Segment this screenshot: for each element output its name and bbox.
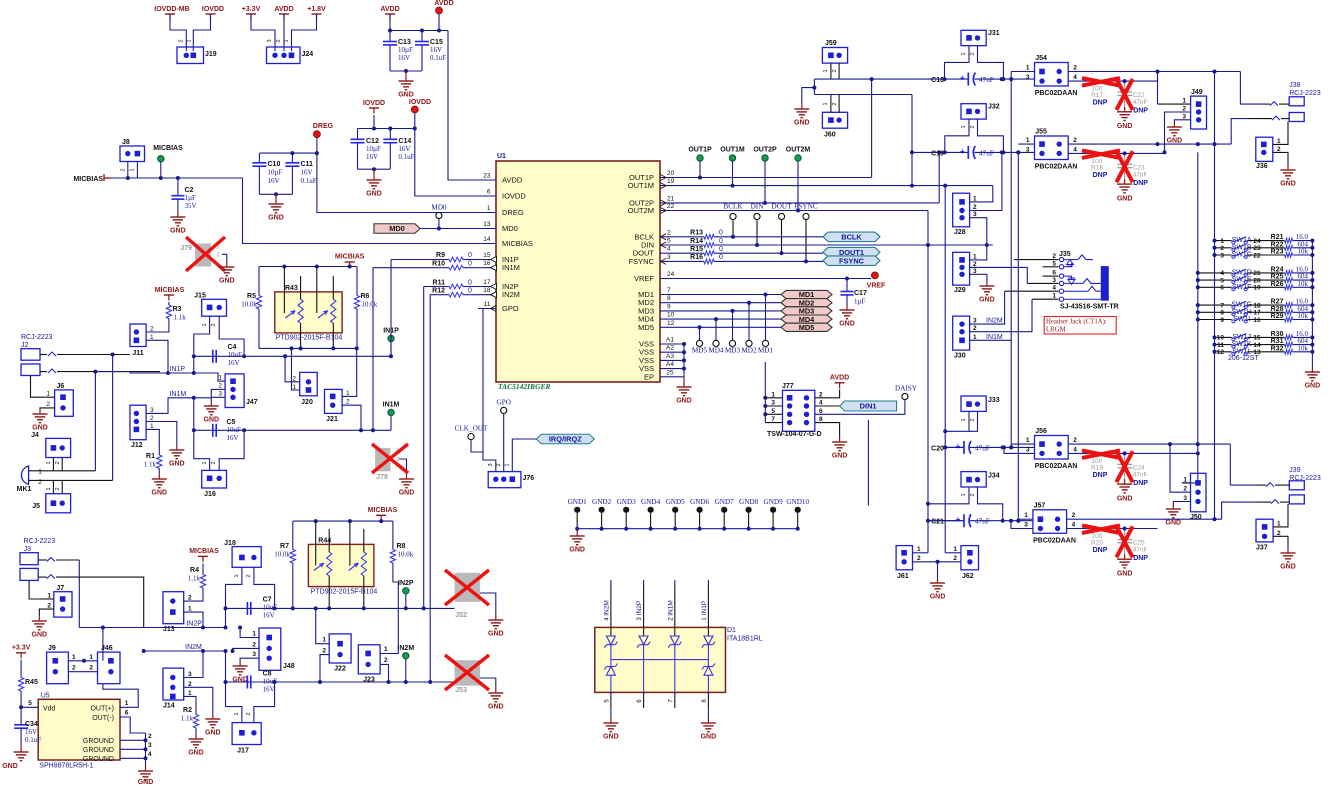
svg-text:DIN: DIN — [751, 203, 765, 211]
wire — [292, 14, 317, 51]
junction at 797.7,528.7 — [796, 527, 800, 531]
junction at 388.5,682 — [387, 680, 391, 684]
power testpoint VREF — [872, 272, 879, 279]
capacitor C15 — [421, 31, 423, 42]
svg-text:MD4: MD4 — [708, 347, 724, 355]
svg-text:J20: J20 — [301, 399, 313, 406]
svg-text:1µF: 1µF — [854, 298, 866, 306]
wire — [838, 95, 840, 113]
testpoint — [713, 340, 719, 346]
testpoint OUT1P — [697, 155, 703, 161]
svg-text:16V: 16V — [263, 686, 275, 694]
connector J20 — [300, 372, 318, 395]
testpoint — [762, 340, 768, 346]
connector J5 — [46, 494, 71, 513]
junction at 390.3,128.5 — [388, 127, 392, 131]
connector J46 — [98, 652, 121, 684]
capacitor C25 (DNP) — [1124, 529, 1126, 540]
junction at 1164.5,152.4 — [1163, 150, 1167, 154]
junction at 765.3,397.8 — [763, 396, 767, 400]
wire — [674, 513, 676, 529]
svg-text:Vdd: Vdd — [43, 706, 56, 713]
connector J17 — [232, 723, 261, 745]
wire MD5 row — [678, 326, 781, 328]
svg-text:R29: R29 — [1271, 313, 1284, 320]
svg-text:19: 19 — [1253, 285, 1261, 292]
svg-text:1: 1 — [234, 574, 240, 577]
testpoint GND8 — [746, 507, 752, 513]
svg-text:J59: J59 — [825, 40, 837, 47]
junction at 95.4,371.6 — [93, 370, 97, 374]
svg-text:10µF: 10µF — [398, 46, 413, 54]
wire — [830, 95, 832, 113]
ground — [610, 718, 612, 723]
ground — [1311, 367, 1313, 372]
junction at 1124.6,453.4 — [1123, 451, 1127, 455]
connector J59 — [822, 48, 847, 64]
red X over J53 — [445, 655, 489, 690]
red X over C24 — [1116, 451, 1132, 482]
connector J52 (DNP) — [455, 573, 481, 602]
svg-text:GND: GND — [152, 490, 168, 497]
capacitor C14 — [389, 129, 391, 140]
junction at 781.5,253.2 — [780, 251, 784, 255]
svg-text:GND5: GND5 — [666, 498, 686, 506]
wire — [463, 294, 478, 296]
wire — [52, 458, 54, 471]
svg-text:0: 0 — [719, 254, 723, 261]
wire J2 sleeve to J6 — [31, 376, 41, 398]
svg-text:1: 1 — [953, 546, 957, 553]
wire J79 to ground — [222, 254, 227, 262]
svg-text:BCLK: BCLK — [723, 203, 743, 211]
svg-text:3: 3 — [1024, 522, 1028, 529]
testpoint GND9 — [770, 507, 776, 513]
wire — [202, 563, 204, 574]
svg-text:47nF: 47nF — [1133, 99, 1148, 106]
wire pot4 wiper — [349, 521, 351, 565]
wire testpoint R14 — [756, 220, 758, 245]
junction at 1312.4,319.5 — [1310, 318, 1314, 322]
J35 contact pin5 — [1064, 263, 1072, 267]
wire IRQ to J76 — [512, 439, 536, 472]
ground — [576, 531, 578, 536]
svg-text:16V: 16V — [25, 728, 37, 736]
svg-text:GND8: GND8 — [739, 498, 759, 506]
svg-text:35V: 35V — [185, 202, 197, 210]
svg-text:1: 1 — [234, 712, 240, 715]
wire J16 pin1 — [194, 430, 210, 470]
wire J57 to J39 ring — [1222, 502, 1256, 519]
ground — [1172, 504, 1174, 509]
svg-text:C12: C12 — [366, 138, 379, 145]
wire J56 pin4 row — [1068, 452, 1198, 454]
svg-text:C11: C11 — [301, 161, 314, 168]
wire J18 pin2 — [254, 567, 275, 608]
svg-text:0: 0 — [468, 280, 472, 287]
svg-text:2: 2 — [832, 69, 838, 72]
svg-text:A3: A3 — [666, 353, 674, 360]
wire CLK_OUT to J76 — [471, 440, 483, 452]
svg-text:47nF: 47nF — [1133, 171, 1148, 178]
svg-text:1: 1 — [1026, 137, 1030, 144]
wire J54 pin1 — [1011, 71, 1034, 73]
wire J36 pin1 to J38 — [1273, 122, 1288, 145]
svg-text:DIN1: DIN1 — [860, 402, 877, 411]
svg-text:4: 4 — [1220, 270, 1224, 277]
junction at 650.6,528.7 — [649, 527, 653, 531]
capacitor C22 (DNP) — [1124, 81, 1126, 92]
svg-text:OUT(-): OUT(-) — [92, 715, 114, 722]
svg-text:J52: J52 — [455, 612, 467, 619]
svg-text:2: 2 — [1182, 106, 1186, 113]
svg-text:J12: J12 — [131, 442, 143, 449]
junction at 944.8,152.4 — [943, 150, 947, 154]
wire — [136, 162, 138, 179]
ground — [177, 212, 179, 217]
power flag MICBIAS — [376, 514, 386, 516]
wire left rail B — [1214, 72, 1216, 520]
svg-text:DNP: DNP — [1093, 172, 1108, 179]
wire — [945, 446, 962, 448]
svg-text:18: 18 — [1253, 302, 1261, 309]
wire — [103, 684, 138, 708]
wire — [650, 513, 652, 529]
wire — [160, 162, 162, 178]
wire — [463, 286, 478, 288]
junction at 232.5,651 — [231, 649, 235, 653]
wire J53 to ground — [480, 678, 496, 688]
ground — [20, 747, 22, 752]
testpoint GND1 — [574, 507, 580, 513]
wire OUT2P up to C19 — [938, 152, 940, 203]
junction at 225.5,608.4 — [224, 606, 228, 610]
svg-text:10k: 10k — [1298, 312, 1309, 320]
junction at 1002.7,520.7 — [1001, 519, 1005, 523]
svg-text:GND: GND — [1117, 123, 1133, 130]
svg-text:24: 24 — [1253, 238, 1261, 245]
junction at 1018.3,152.4 — [1016, 150, 1020, 154]
junction at 1312.4,344.6 — [1310, 343, 1314, 347]
wire J56 row to J39 — [1229, 444, 1231, 485]
wire J54 to J38 tip — [1240, 72, 1265, 105]
wire OUT1P up to C18 — [871, 79, 873, 177]
svg-text:1: 1 — [38, 469, 42, 476]
power testpoint IOVDD — [411, 106, 418, 113]
wire IN1M bus right — [244, 429, 391, 431]
svg-text:GND: GND — [169, 461, 185, 468]
svg-text:MICBIAS: MICBIAS — [73, 176, 103, 183]
power flag AVDD — [835, 382, 845, 384]
wire IN2P row — [79, 627, 225, 629]
connector J23 — [358, 645, 380, 674]
svg-text:1: 1 — [46, 461, 52, 464]
svg-text:10uF: 10uF — [227, 426, 242, 434]
U1 VSS and EP pins — [660, 343, 684, 345]
wire — [392, 521, 394, 549]
svg-text:PBC02DAAN: PBC02DAAN — [1035, 164, 1078, 171]
svg-text:C34: C34 — [25, 721, 38, 728]
svg-text:2: 2 — [1220, 245, 1224, 252]
junction at 765.5,294.5 — [764, 293, 768, 297]
junction at 732.5,185.6 — [731, 184, 735, 188]
wire J56 to J39 tip — [1230, 484, 1256, 486]
svg-text:OUT1P: OUT1P — [688, 147, 712, 154]
wire R3 to J11 — [146, 319, 169, 333]
svg-text:2: 2 — [384, 657, 388, 664]
svg-text:2: 2 — [55, 461, 61, 464]
wire — [610, 708, 612, 718]
wire — [678, 260, 704, 262]
svg-text:GND9: GND9 — [764, 498, 784, 506]
svg-text:J11: J11 — [132, 350, 143, 357]
wire J16 pin2 — [219, 430, 244, 470]
wire — [61, 458, 63, 471]
testpoint GND5 — [672, 507, 678, 513]
svg-text:GND: GND — [1280, 181, 1296, 188]
connector J18 — [232, 547, 261, 568]
junction at 405.8,682 — [404, 680, 408, 684]
wire — [678, 244, 704, 246]
wire J22 pin1 — [316, 608, 330, 643]
junction at 193.8,430.3 — [192, 428, 196, 432]
wire testpoint R15 — [781, 220, 783, 254]
svg-text:4: 4 — [1072, 522, 1076, 529]
wire to J50 pin1 — [1182, 482, 1198, 484]
wire J9-J46 row1 — [68, 660, 97, 662]
connector J28 — [953, 193, 970, 227]
J35 tip contact — [1064, 259, 1078, 261]
capacitor C10 — [258, 153, 260, 162]
svg-text:C7: C7 — [263, 597, 272, 604]
junction at 1312.4,247.8 — [1310, 246, 1314, 250]
svg-text:AVDD: AVDD — [830, 375, 849, 382]
wire J54 pin2 row — [1068, 71, 1240, 73]
junction at 145.5,740.3 — [144, 738, 148, 742]
svg-text:J5: J5 — [32, 503, 40, 510]
red X over J52 — [445, 570, 489, 605]
svg-text:R13: R13 — [690, 230, 703, 237]
svg-text:ITA18B1RL: ITA18B1RL — [727, 636, 763, 643]
wire — [390, 70, 422, 72]
U1 left pins — [478, 179, 496, 181]
svg-text:AVDD: AVDD — [380, 6, 399, 13]
net flag MD4 — [781, 315, 832, 323]
svg-text:3: 3 — [771, 400, 775, 407]
wire J33 pin1 — [945, 411, 969, 431]
svg-text:J29: J29 — [954, 287, 966, 294]
wire J13 pin1 to IN2P — [184, 612, 203, 627]
ground — [495, 615, 497, 620]
power flag MICBIAS — [345, 261, 355, 263]
wire J17 pin2 — [254, 682, 275, 723]
wire — [748, 513, 750, 529]
svg-text:J53: J53 — [455, 687, 467, 694]
svg-text:2: 2 — [211, 323, 217, 326]
svg-text:7: 7 — [667, 287, 671, 294]
svg-text:DNP: DNP — [1133, 108, 1148, 115]
svg-text:GND7: GND7 — [715, 498, 735, 506]
J3 tip contact — [38, 559, 47, 561]
svg-text:J4: J4 — [31, 432, 39, 439]
svg-text:J24: J24 — [302, 51, 314, 58]
svg-text:IN1P: IN1P — [701, 601, 708, 615]
junction at 203,627.5 — [201, 626, 205, 630]
svg-text:GND: GND — [399, 490, 415, 497]
ground — [1287, 165, 1289, 170]
svg-text:IN2M: IN2M — [185, 644, 202, 651]
wire left rail A — [1197, 152, 1199, 483]
wire J29 pin3 to ground — [970, 274, 987, 281]
junction at 1214.5,240.6 — [1213, 239, 1217, 243]
svg-text:R18: R18 — [1091, 164, 1103, 171]
junction at 1197.8,319.5 — [1196, 318, 1200, 322]
svg-text:R32: R32 — [1271, 345, 1284, 352]
junction at 1003.4,79.1 — [1001, 77, 1005, 81]
net flag FSYNC — [823, 256, 880, 266]
junction at 1312.4,287.3 — [1310, 285, 1314, 289]
junction at 814.4,87.6 — [812, 86, 816, 90]
svg-text:1: 1 — [961, 493, 967, 496]
wire J29 pin1 to DIN — [970, 245, 987, 260]
svg-text:J23: J23 — [363, 677, 375, 684]
wire J2 ring IN1P — [57, 371, 160, 373]
svg-text:R21: R21 — [1271, 234, 1284, 241]
svg-text:15: 15 — [1253, 335, 1261, 342]
svg-text:3: 3 — [148, 742, 152, 749]
wire — [438, 219, 440, 229]
junction at 1011.2,447.4 — [1009, 445, 1013, 449]
junction at 274.6,608.4 — [273, 606, 277, 610]
svg-text:J30: J30 — [954, 353, 966, 360]
svg-text:14: 14 — [483, 236, 491, 243]
junction at 765.3,406 — [763, 404, 767, 408]
junction at 333.3,348.4 — [331, 346, 335, 350]
D1 top diodes — [606, 636, 615, 645]
svg-text:5: 5 — [771, 408, 775, 415]
svg-text:R20: R20 — [1091, 540, 1103, 547]
red X over J79 — [186, 237, 225, 271]
junction at 945.2,431.3 — [943, 429, 947, 433]
svg-text:OUT2P: OUT2P — [753, 147, 777, 154]
wire J18 pin1 — [226, 567, 242, 608]
junction at 1312.4,255 — [1310, 253, 1314, 257]
svg-text:+: + — [956, 515, 961, 524]
junction at 406,71 — [404, 69, 408, 73]
svg-text:PTD902-2015F-B104: PTD902-2015F-B104 — [311, 589, 378, 596]
testpoint CLK_OUT — [468, 434, 474, 440]
wire — [625, 513, 627, 529]
testpoint GND3 — [623, 507, 629, 513]
power flag +3.3V — [16, 652, 26, 654]
junction at 112.6,354.5 — [111, 353, 115, 357]
svg-text:2: 2 — [1073, 437, 1077, 444]
svg-text:0.1uF: 0.1uF — [430, 54, 446, 62]
wire — [52, 480, 54, 493]
D1 bottom pins — [610, 692, 612, 708]
svg-text:3: 3 — [218, 391, 222, 398]
svg-text:10k: 10k — [1298, 280, 1309, 288]
wire C4 bus — [194, 355, 244, 357]
wire — [390, 342, 392, 356]
svg-text:24: 24 — [667, 271, 675, 278]
junction at 944.5,79.1 — [943, 77, 947, 81]
testpoint GPO — [501, 407, 507, 413]
junction at 374,169.2 — [372, 167, 376, 171]
svg-text:MICBIAS: MICBIAS — [368, 507, 398, 514]
svg-text:GND: GND — [398, 92, 414, 99]
svg-text:IN2M: IN2M — [502, 290, 520, 299]
wire pot2 top — [332, 276, 334, 299]
svg-text:R10: R10 — [432, 261, 445, 268]
svg-text:MD0: MD0 — [431, 204, 447, 212]
svg-text:GROUND: GROUND — [83, 747, 114, 754]
junction at 928,520.7 — [926, 519, 930, 523]
wire J14 pin2 to ground — [184, 687, 213, 714]
svg-text:IOVDD: IOVDD — [409, 99, 431, 106]
svg-text:C21: C21 — [931, 519, 944, 526]
svg-text:2: 2 — [55, 487, 61, 490]
wire IN1P bus right — [244, 355, 391, 357]
ground — [226, 262, 228, 267]
svg-text:GND: GND — [1117, 495, 1133, 502]
wire IN2M down to C8 — [225, 651, 227, 682]
svg-text:PBC02DAAN: PBC02DAAN — [1033, 537, 1076, 544]
wire — [815, 405, 840, 407]
connector J61 — [896, 546, 912, 570]
junction at 1001.7,79.1 — [1000, 77, 1004, 81]
wire — [714, 244, 823, 246]
svg-text:10.0k: 10.0k — [241, 301, 257, 309]
red X over C23 — [1116, 151, 1132, 182]
ground — [937, 578, 939, 583]
capacitor C24 (DNP) — [1124, 453, 1126, 464]
svg-text:J15: J15 — [194, 293, 206, 300]
junction at 244.1,430.3 — [242, 428, 246, 432]
ground — [1124, 107, 1126, 112]
testpoint GND4 — [648, 507, 654, 513]
wire DIN row ext — [757, 244, 993, 246]
D1 middle bus — [611, 659, 709, 661]
wire — [1182, 482, 1191, 484]
junction at 423.7,608.4 — [422, 606, 426, 610]
power flag AVDD — [279, 13, 289, 15]
wire AVDD to U1 — [448, 31, 478, 181]
svg-text:U5: U5 — [41, 693, 50, 700]
connector J33 — [961, 396, 986, 411]
junction at 1018.3,520.7 — [1016, 519, 1020, 523]
J39 ring contact — [1256, 501, 1271, 503]
junction at 1170,444.1 — [1168, 442, 1172, 446]
ground — [158, 474, 160, 479]
ground — [38, 616, 40, 621]
svg-text:PBC02DAAN: PBC02DAAN — [1035, 463, 1078, 470]
wire J30 pin2 — [970, 299, 1032, 332]
ground — [986, 281, 988, 286]
connector J22 — [329, 634, 351, 663]
svg-text:BCLK: BCLK — [841, 233, 862, 242]
svg-text:2: 2 — [89, 665, 93, 672]
svg-text:U1: U1 — [497, 153, 506, 160]
power testpoint AVDD — [436, 7, 443, 14]
svg-text:+1.8V: +1.8V — [307, 6, 326, 13]
wire J28 pin1 to OUT1M row — [970, 186, 993, 202]
wire J78 to ground — [399, 459, 407, 474]
svg-text:J2: J2 — [21, 342, 29, 349]
wire J34 pin2 — [978, 487, 1003, 521]
svg-text:1: 1 — [1052, 293, 1056, 300]
junction at 939.2,152.4 — [937, 150, 941, 154]
